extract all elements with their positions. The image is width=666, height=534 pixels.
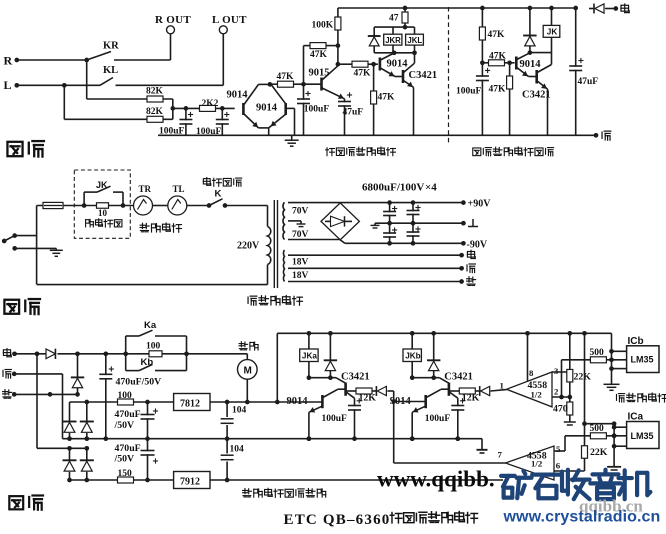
svg-text:47K: 47K <box>354 69 372 79</box>
svg-text:100uF: 100uF <box>425 414 451 424</box>
svg-text:470uF: 470uF <box>115 409 141 420</box>
svg-text:2K2: 2K2 <box>202 99 219 109</box>
svg-text:/50V: /50V <box>114 420 135 431</box>
svg-text:www.crystalradio.cn: www.crystalradio.cn <box>503 509 661 526</box>
svg-text:47K: 47K <box>488 30 506 40</box>
svg-text:C3421: C3421 <box>522 90 551 101</box>
svg-text:12K: 12K <box>462 393 480 404</box>
svg-text:150: 150 <box>118 469 133 479</box>
svg-text:7812: 7812 <box>180 399 200 410</box>
svg-text:18V: 18V <box>292 271 309 281</box>
svg-text:C3421: C3421 <box>444 371 473 382</box>
svg-text:12K: 12K <box>359 393 377 404</box>
svg-text:18V: 18V <box>292 258 309 268</box>
svg-text:2: 2 <box>554 387 559 397</box>
svg-text:47K: 47K <box>489 85 507 95</box>
svg-text:LM35: LM35 <box>631 431 654 441</box>
svg-text:100K: 100K <box>312 21 334 31</box>
svg-text:L: L <box>4 78 12 92</box>
svg-text:KL: KL <box>103 65 118 76</box>
svg-text:JK: JK <box>547 27 558 36</box>
svg-text:5: 5 <box>556 444 561 454</box>
svg-text:Ka: Ka <box>144 320 157 331</box>
svg-text:100: 100 <box>118 391 133 401</box>
svg-text:47K: 47K <box>378 93 396 103</box>
svg-text:×4: ×4 <box>425 182 437 194</box>
svg-text:100: 100 <box>146 342 161 352</box>
svg-text:3: 3 <box>554 366 559 376</box>
svg-text:470uF/50V: 470uF/50V <box>116 377 162 388</box>
svg-text:104: 104 <box>230 445 245 455</box>
svg-text:9014: 9014 <box>227 90 249 101</box>
svg-text:K: K <box>215 189 222 200</box>
svg-text:JKa: JKa <box>302 352 317 361</box>
svg-text:C3421: C3421 <box>409 70 438 81</box>
svg-text:470: 470 <box>553 404 568 415</box>
svg-text:500: 500 <box>590 348 605 358</box>
svg-text:JKb: JKb <box>405 352 420 361</box>
svg-text:100uF: 100uF <box>196 127 222 137</box>
svg-text:100uF: 100uF <box>304 105 330 115</box>
svg-text:JKL: JKL <box>407 36 422 45</box>
svg-text:+90V: +90V <box>468 199 492 210</box>
svg-text:JK: JK <box>96 180 108 190</box>
svg-text:47uF: 47uF <box>578 77 599 87</box>
svg-text:104: 104 <box>232 406 247 416</box>
svg-text:47K: 47K <box>489 52 507 62</box>
svg-text:100uF: 100uF <box>159 127 185 137</box>
svg-text:TR: TR <box>139 184 152 194</box>
svg-text:9015: 9015 <box>309 68 330 79</box>
svg-text:JKR: JKR <box>385 36 401 45</box>
svg-text:8: 8 <box>529 368 534 378</box>
svg-text:LM35: LM35 <box>631 355 654 365</box>
svg-text:R: R <box>4 54 13 68</box>
svg-text:M: M <box>244 366 252 377</box>
svg-text:L OUT: L OUT <box>212 14 247 26</box>
svg-text:-90V: -90V <box>467 240 488 251</box>
svg-text:6800uF/100V: 6800uF/100V <box>362 182 424 194</box>
svg-text:22K: 22K <box>590 447 608 458</box>
svg-text:7: 7 <box>498 450 503 460</box>
svg-text:47: 47 <box>389 14 399 24</box>
svg-text:6: 6 <box>556 461 561 471</box>
svg-text:7912: 7912 <box>180 477 200 488</box>
svg-text:9014: 9014 <box>287 396 309 407</box>
svg-text:220V: 220V <box>237 241 260 252</box>
svg-text:1/2: 1/2 <box>531 389 543 399</box>
svg-text:R OUT: R OUT <box>155 14 191 26</box>
svg-text:ETC QB–6360: ETC QB–6360 <box>284 512 391 528</box>
svg-text:KR: KR <box>103 41 119 52</box>
svg-text:500: 500 <box>590 424 605 434</box>
svg-text:9014: 9014 <box>256 103 278 114</box>
svg-text:47K: 47K <box>310 50 328 60</box>
svg-text:22K: 22K <box>574 372 592 383</box>
svg-text:ICb: ICb <box>628 336 644 347</box>
svg-text:www.qqibb.: www.qqibb. <box>377 467 495 492</box>
svg-text:470uF: 470uF <box>115 443 141 454</box>
svg-text:82K: 82K <box>146 107 164 117</box>
svg-text:100uF: 100uF <box>456 87 482 97</box>
svg-text:47K: 47K <box>277 72 295 82</box>
svg-text:1: 1 <box>500 380 504 390</box>
svg-text:82K: 82K <box>146 87 164 97</box>
svg-text:9014: 9014 <box>387 59 409 70</box>
svg-text:9014: 9014 <box>520 59 542 70</box>
svg-text:TL: TL <box>173 184 185 194</box>
svg-text:10: 10 <box>98 208 108 218</box>
svg-text:ICa: ICa <box>628 412 644 423</box>
svg-text:70V: 70V <box>292 207 309 217</box>
svg-text:70V: 70V <box>292 230 309 240</box>
svg-text:100uF: 100uF <box>322 414 348 424</box>
svg-text:1/2: 1/2 <box>531 459 543 469</box>
svg-text:C3421: C3421 <box>341 371 370 382</box>
svg-text:Kb: Kb <box>141 357 154 368</box>
svg-text:47uF: 47uF <box>343 108 364 118</box>
svg-text:/50V: /50V <box>114 454 135 465</box>
